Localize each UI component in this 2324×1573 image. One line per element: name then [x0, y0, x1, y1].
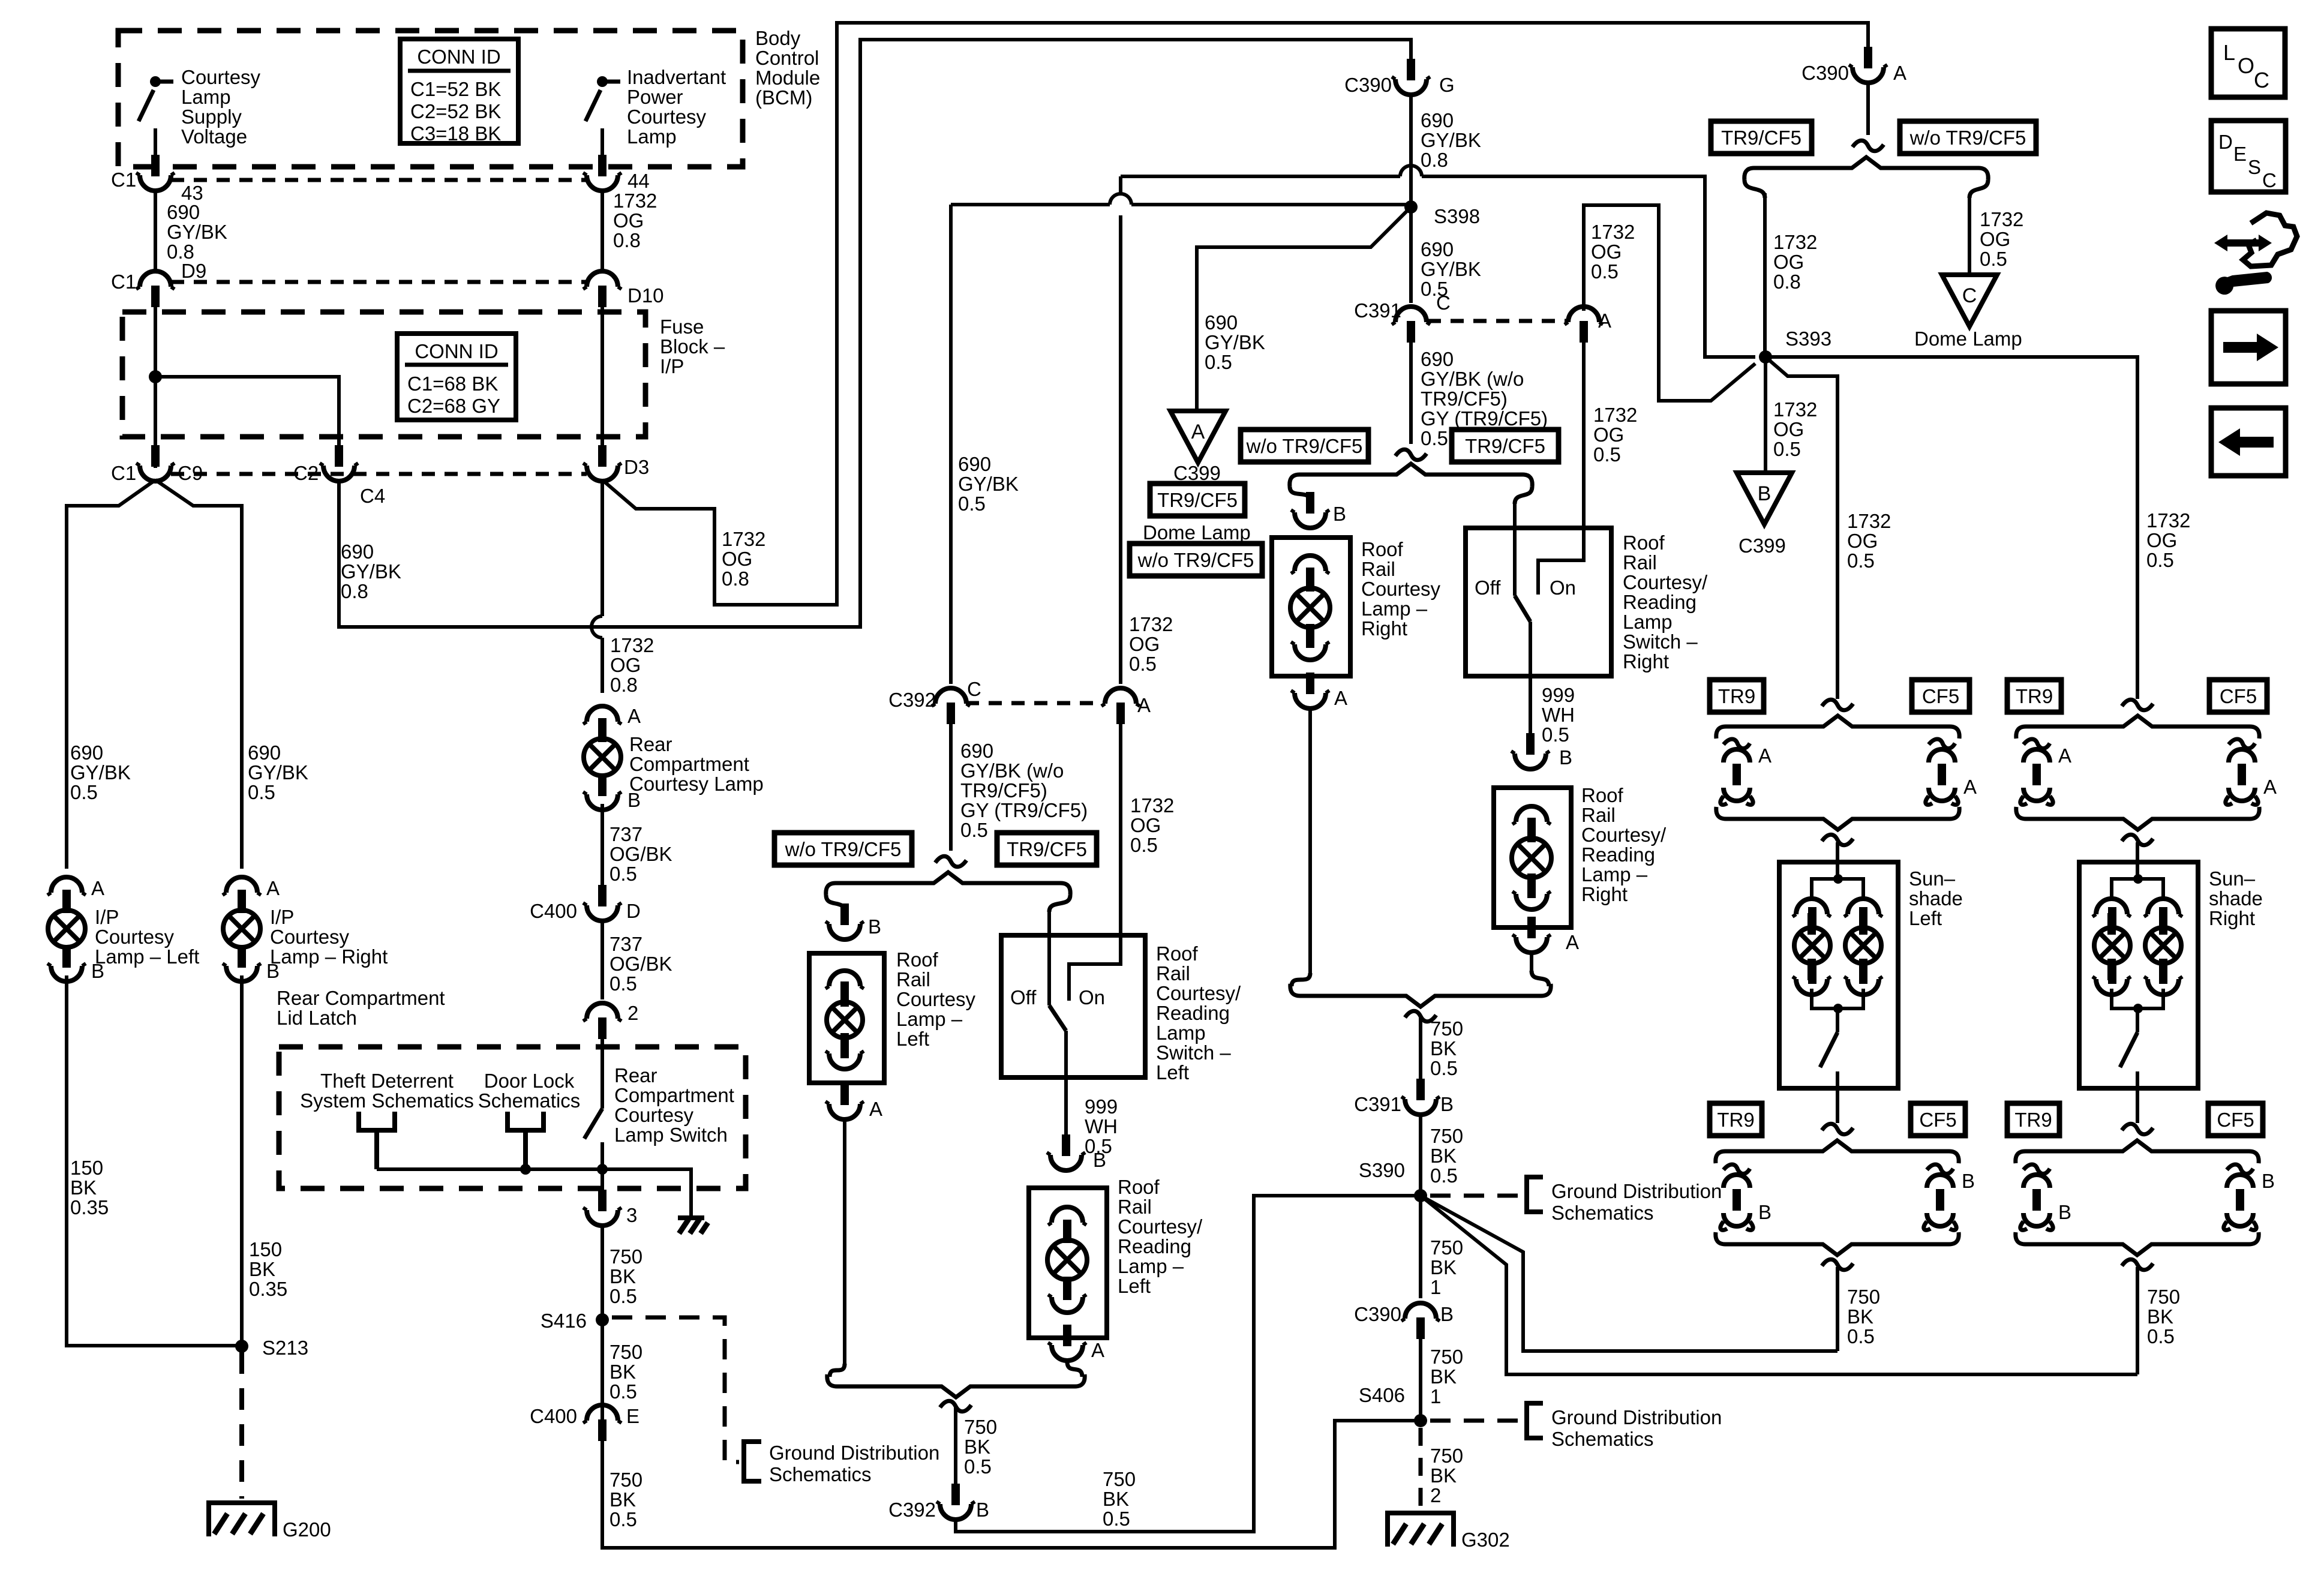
- connector row C391 C-A: [1428, 319, 1567, 323]
- S-link reading right to bracket: [1532, 971, 1549, 986]
- box Roof Rail Courtesy/Reading Lamp Switch - Left: [1001, 935, 1145, 1077]
- S-link left branch C392 bracket: [826, 895, 845, 912]
- svg-text:0.5: 0.5: [1542, 724, 1569, 746]
- svg-text:D10: D10: [627, 284, 664, 307]
- svg-text:Schematics: Schematics: [1551, 1428, 1654, 1450]
- svg-text:0.8: 0.8: [613, 229, 641, 251]
- svg-text:OG: OG: [1130, 814, 1161, 836]
- off-page triangle A dome lamp: [1170, 411, 1226, 463]
- pin left bulb top (Left): [1792, 899, 1831, 935]
- Fuse Block - I/P dashed box: [122, 312, 645, 437]
- option label TR9 (Left lower): [1710, 1103, 1762, 1136]
- wire 1732 OG 0.5 C391 A to S393: [1584, 205, 1755, 401]
- svg-text:BK: BK: [1430, 1365, 1457, 1388]
- svg-text:GY (TR9/CF5): GY (TR9/CF5): [1421, 407, 1548, 430]
- svg-text:0.5: 0.5: [2147, 1325, 2175, 1347]
- svg-text:GY (TR9/CF5): GY (TR9/CF5): [960, 799, 1088, 821]
- svg-text:I/P: I/P: [660, 355, 684, 377]
- junction sunshade Right top: [2133, 874, 2143, 884]
- connector A reading left: [1048, 1325, 1086, 1361]
- option label TR9/CF5 (roof right): [1452, 430, 1559, 462]
- wire 750 BK 1 S390 to C390 B: [1419, 1196, 1422, 1298]
- svg-text:GY/BK (w/o: GY/BK (w/o: [960, 760, 1064, 782]
- svg-text:750: 750: [1103, 1468, 1136, 1490]
- option label TR9/CF5 (roof left): [997, 833, 1097, 865]
- option label CF5 (Right upper): [2209, 680, 2267, 712]
- legend DESC box: [2211, 121, 2286, 192]
- connector C390 A: [1849, 47, 1887, 83]
- svg-text:Sun–: Sun–: [1909, 867, 1956, 890]
- svg-text:Courtesy/: Courtesy/: [1118, 1215, 1203, 1238]
- S-split below gather bracket right: [1405, 1011, 1436, 1022]
- svg-text:C2=68 GY: C2=68 GY: [407, 395, 500, 417]
- svg-text:BK: BK: [1430, 1464, 1457, 1487]
- svg-text:A: A: [2263, 776, 2277, 798]
- option label w/o TR9/CF5 (roof left): [774, 833, 912, 865]
- wire hop 690 line over 1732 vertical: [1110, 194, 1131, 205]
- wire sunshade Left output: [1836, 1071, 1839, 1123]
- svg-text:1732: 1732: [722, 528, 765, 550]
- option bracket lower (Left): [1716, 1140, 1959, 1163]
- svg-text:0.8: 0.8: [341, 580, 368, 602]
- svg-text:TR9/CF5): TR9/CF5): [1421, 388, 1508, 410]
- svg-text:GY/BK (w/o: GY/BK (w/o: [1421, 368, 1524, 390]
- pin left bulb top (Right): [2092, 899, 2131, 935]
- wire 1732 OG 0.5 S393 to sunshade left: [1765, 357, 1837, 699]
- pin bottom roof courtesy right: [1291, 624, 1329, 660]
- pin top roof courtesy right: [1291, 556, 1329, 592]
- wire sunshade Left inner top: [1836, 862, 1839, 879]
- pin top reading left: [1048, 1207, 1086, 1243]
- svg-text:B: B: [627, 789, 641, 811]
- svg-text:OG/BK: OG/BK: [609, 843, 672, 865]
- split below bracket (Left): [1822, 834, 1853, 845]
- CONN ID table (BCM): [400, 39, 518, 143]
- svg-text:0.5: 0.5: [609, 1508, 637, 1530]
- pin top reading right: [1512, 806, 1551, 842]
- legend right arrow box: [2211, 311, 2286, 384]
- box Roof Rail Courtesy Lamp - Left: [809, 953, 884, 1083]
- svg-text:S: S: [2248, 156, 2261, 178]
- legend car outline with arrow and wrench icon: [2214, 235, 2272, 251]
- svg-text:0.8: 0.8: [1421, 149, 1448, 171]
- svg-text:Left: Left: [896, 1028, 929, 1050]
- svg-text:1: 1: [1430, 1276, 1441, 1298]
- box Sun-shade Right: [2079, 862, 2198, 1088]
- svg-text:D3: D3: [624, 456, 649, 478]
- svg-text:Dome Lamp: Dome Lamp: [1914, 328, 2022, 350]
- svg-text:1732: 1732: [1129, 613, 1173, 635]
- svg-text:C391: C391: [1354, 1093, 1401, 1115]
- svg-text:1732: 1732: [1773, 231, 1817, 253]
- wire lever feed switch right: [1513, 504, 1517, 596]
- connector D10 fuse block: [583, 271, 621, 307]
- svg-text:OG: OG: [1129, 633, 1160, 655]
- svg-text:750: 750: [609, 1245, 642, 1268]
- S-link roof courtesy left to bracket: [830, 1364, 845, 1377]
- svg-text:0.5: 0.5: [1130, 834, 1158, 856]
- svg-text:OG: OG: [1593, 424, 1624, 446]
- svg-text:750: 750: [1430, 1125, 1463, 1147]
- wire bulb tee Left: [1812, 879, 1863, 901]
- svg-text:0.5: 0.5: [1847, 550, 1875, 572]
- svg-text:Off: Off: [1010, 986, 1037, 1008]
- svg-text:Roof: Roof: [1623, 532, 1665, 554]
- svg-text:TR9/CF5: TR9/CF5: [1157, 489, 1238, 511]
- wire hop D3 wire over 690 line: [591, 616, 602, 638]
- svg-text:Block –: Block –: [660, 335, 725, 358]
- svg-text:A: A: [1963, 776, 1977, 798]
- svg-text:Courtesy: Courtesy: [181, 66, 261, 88]
- lamp Roof Rail Courtesy Lamp - Left: [827, 981, 863, 1058]
- svg-text:A: A: [91, 877, 104, 899]
- option bracket upper (Right): [2016, 716, 2259, 739]
- svg-text:0.5: 0.5: [958, 493, 986, 515]
- dashed branch S416 to ground distribution: [612, 1317, 739, 1462]
- option label TR9/CF5 (dome): [1150, 484, 1245, 516]
- connector B I/P courtesy lamp right: [223, 945, 261, 981]
- svg-text:GY/BK: GY/BK: [167, 221, 227, 243]
- svg-text:C392: C392: [888, 1499, 936, 1521]
- option label w/o TR9/CF5 (dome top): [1900, 121, 2036, 154]
- svg-text:690: 690: [1421, 348, 1454, 370]
- connector B rear compartment courtesy lamp: [583, 774, 621, 810]
- svg-text:Rail: Rail: [1118, 1196, 1152, 1218]
- svg-text:Theft Deterrent: Theft Deterrent: [320, 1070, 454, 1092]
- connector A I/P courtesy lamp right: [223, 877, 261, 913]
- svg-text:C390: C390: [1801, 62, 1849, 84]
- svg-text:A: A: [1758, 745, 1771, 767]
- wire roof courtesy left down: [843, 1117, 846, 1364]
- wire 1732 OG 0.5 C392 A to left switch: [1119, 724, 1122, 935]
- connector C392 A: [1101, 688, 1140, 724]
- svg-text:Rear: Rear: [629, 733, 672, 755]
- svg-text:BK: BK: [609, 1361, 636, 1383]
- svg-text:Reading: Reading: [1623, 591, 1697, 613]
- svg-text:B: B: [1758, 482, 1771, 505]
- wire 1732 OG 0.8 D3 to C390 A: [602, 23, 1868, 605]
- svg-text:Reading: Reading: [1156, 1002, 1230, 1024]
- wire 737 OG/BK 0.5 lower: [600, 920, 604, 999]
- svg-text:A: A: [1893, 62, 1906, 84]
- svg-text:Sun–: Sun–: [2209, 867, 2256, 890]
- svg-text:3: 3: [626, 1204, 637, 1226]
- svg-text:shade: shade: [2209, 887, 2263, 909]
- svg-text:B: B: [976, 1499, 989, 1521]
- bracket Ground Distribution (S390): [1527, 1177, 1543, 1212]
- svg-text:0.5: 0.5: [960, 819, 988, 841]
- junction inside fuse block: [149, 370, 162, 383]
- svg-text:Right: Right: [1623, 650, 1669, 673]
- svg-text:Schematics: Schematics: [478, 1089, 581, 1112]
- svg-text:737: 737: [609, 823, 642, 845]
- svg-text:C400: C400: [530, 1405, 577, 1427]
- svg-text:C392: C392: [888, 689, 936, 711]
- connector C391 C: [1392, 307, 1430, 343]
- pin left bulb bottom (Left): [1792, 959, 1831, 995]
- svg-text:Voltage: Voltage: [181, 125, 247, 148]
- svg-text:CF5: CF5: [2220, 685, 2257, 707]
- wire 737 OG/BK 0.5 upper: [600, 804, 604, 897]
- Body Control Module (BCM) dashed box: [118, 31, 743, 167]
- S-link right branch C392 bracket: [1049, 895, 1070, 912]
- svg-text:C1: C1: [111, 462, 136, 484]
- wire 690 GY/BK C392 C down: [949, 724, 953, 851]
- svg-text:0.5: 0.5: [609, 1380, 637, 1403]
- option bracket lower (Right): [2016, 1140, 2259, 1163]
- svg-text:750: 750: [1430, 1236, 1463, 1259]
- svg-text:750: 750: [609, 1341, 642, 1363]
- svg-text:GY/BK: GY/BK: [248, 761, 308, 784]
- svg-text:Roof: Roof: [1581, 784, 1624, 806]
- svg-text:(BCM): (BCM): [755, 86, 812, 109]
- svg-text:Body: Body: [755, 27, 801, 49]
- lamp Roof Rail Courtesy/Reading Lamp - Left: [1047, 1220, 1087, 1300]
- svg-text:Left: Left: [1909, 907, 1942, 929]
- wire 1732 OG horizontal to S393 side: [1121, 176, 1755, 357]
- lamp Roof Rail Courtesy Lamp - Right: [1290, 568, 1330, 648]
- switch lever Rear Compartment Courtesy Lamp Switch: [584, 1109, 602, 1139]
- svg-text:On: On: [1079, 986, 1105, 1008]
- svg-text:0.8: 0.8: [1773, 271, 1801, 293]
- connector row C9 C4 D3: [171, 472, 587, 476]
- option label CF5 (Right lower): [2208, 1103, 2263, 1136]
- svg-text:BK: BK: [70, 1176, 97, 1199]
- svg-text:OG: OG: [610, 654, 641, 676]
- svg-text:CF5: CF5: [1919, 1109, 1956, 1131]
- option split under C390 A: [1852, 140, 1884, 151]
- svg-text:Lamp –: Lamp –: [896, 1008, 963, 1030]
- wire bulb join Left: [1812, 989, 1863, 1008]
- option label TR9/CF5 (dome top): [1711, 121, 1812, 154]
- wire 690 GY/BK C391 C down: [1409, 327, 1413, 444]
- switch lever (right switch): [1515, 596, 1530, 622]
- svg-text:Ground Distribution: Ground Distribution: [1551, 1406, 1722, 1428]
- option bracket upper (Left): [1716, 716, 1959, 739]
- wire 690 GY/BK 0.5 to I/P lamp right: [155, 480, 242, 869]
- svg-text:TR9: TR9: [2016, 685, 2053, 707]
- wire 1732 OG C390 A down: [1866, 82, 1870, 135]
- wire 999 WH 0.5 left switch output: [1064, 1031, 1068, 1145]
- svg-text:C391: C391: [1354, 299, 1401, 322]
- junction sunshade Left top: [1833, 874, 1843, 884]
- svg-text:TR9: TR9: [1718, 685, 1755, 707]
- connector C400 E: [583, 1405, 621, 1441]
- svg-text:Right: Right: [2209, 907, 2255, 929]
- svg-text:OG: OG: [1773, 251, 1804, 273]
- svg-text:690: 690: [248, 742, 281, 764]
- connector C390 G: [1392, 59, 1430, 95]
- wire 1732 OG 0.5 C391 A to switch right: [1582, 343, 1586, 528]
- svg-text:S406: S406: [1359, 1384, 1405, 1406]
- S-link roof courtesy right to bracket: [1292, 973, 1310, 986]
- inline connector pair CF5 B (Right): [2224, 1164, 2256, 1230]
- connector C391 A: [1565, 307, 1603, 343]
- svg-text:750: 750: [609, 1469, 642, 1491]
- svg-text:BK: BK: [964, 1436, 990, 1458]
- split to ground wire (Right): [2122, 1259, 2153, 1270]
- wire into sunshade Left: [1836, 842, 1839, 862]
- svg-text:GY/BK: GY/BK: [341, 560, 401, 583]
- connector A I/P courtesy lamp left: [47, 877, 86, 913]
- svg-text:750: 750: [1430, 1445, 1463, 1467]
- svg-text:Schematics: Schematics: [1551, 1202, 1654, 1224]
- svg-text:C: C: [1962, 284, 1977, 307]
- svg-text:OG/BK: OG/BK: [609, 953, 672, 975]
- svg-text:I/P: I/P: [95, 906, 119, 928]
- svg-text:w/o TR9/CF5: w/o TR9/CF5: [1137, 549, 1254, 571]
- svg-text:Roof: Roof: [1118, 1176, 1160, 1198]
- svg-text:G302: G302: [1461, 1529, 1510, 1551]
- svg-text:B: B: [2058, 1201, 2071, 1223]
- option label CF5 (Left lower): [1911, 1103, 1965, 1136]
- wire into lamp switch: [600, 1039, 604, 1109]
- svg-text:D: D: [626, 900, 641, 922]
- connector 3: [583, 1190, 621, 1226]
- splice S393: [1759, 350, 1772, 364]
- wire 690 GY/BK 0.8 C390G to S398: [1409, 94, 1413, 207]
- wire to switch (Left): [1836, 1008, 1839, 1032]
- splice S406: [1414, 1414, 1427, 1427]
- svg-text:B: B: [266, 960, 280, 982]
- svg-text:B: B: [1093, 1149, 1106, 1171]
- svg-text:TR9: TR9: [2014, 1109, 2052, 1131]
- on contact stub (left switch): [1069, 935, 1121, 1001]
- switch lever sunshade Right: [2120, 1032, 2137, 1067]
- option split under C392 C: [935, 856, 966, 867]
- junction door lock: [520, 1164, 531, 1175]
- svg-text:OG: OG: [1773, 418, 1804, 440]
- S-link left branch C391 bracket: [1290, 487, 1310, 502]
- svg-text:BK: BK: [1430, 1037, 1457, 1059]
- svg-text:0.35: 0.35: [70, 1196, 109, 1218]
- wire branch to C2 C4: [155, 377, 339, 456]
- svg-text:0.5: 0.5: [964, 1455, 992, 1478]
- svg-text:0.5: 0.5: [1847, 1325, 1875, 1347]
- splice S213: [235, 1340, 248, 1353]
- dashed wire S213 to G200: [239, 1352, 244, 1499]
- svg-text:BK: BK: [609, 1488, 636, 1511]
- connector C392 C: [932, 688, 970, 724]
- svg-text:GY/BK: GY/BK: [958, 473, 1019, 495]
- svg-text:Lamp –: Lamp –: [1118, 1255, 1184, 1277]
- svg-text:A: A: [1566, 931, 1579, 953]
- svg-text:0.8: 0.8: [610, 674, 638, 696]
- option split under C391 C: [1395, 449, 1427, 460]
- svg-text:B: B: [91, 960, 104, 982]
- connector B roof rail courtesy lamp left: [825, 903, 864, 939]
- inline connector pair CF5 A (Left): [1926, 739, 1958, 804]
- svg-text:0.5: 0.5: [1421, 427, 1448, 449]
- gather bracket upper (Right): [2016, 807, 2259, 830]
- wire 690 GY/BK 0.8 BCM to fuse block: [154, 188, 157, 271]
- inline connector pair CF5 A (Right): [2226, 739, 2258, 804]
- lamp sunshade Right right bulb: [2145, 907, 2181, 984]
- lamp sunshade Left left bulb: [1794, 907, 1830, 984]
- svg-text:Courtesy: Courtesy: [614, 1104, 694, 1126]
- off-page triangle B: [1737, 473, 1792, 524]
- svg-text:WH: WH: [1542, 704, 1575, 726]
- wire lever feed switch left: [1047, 912, 1051, 1005]
- wire 750 BK ground run to S406: [602, 1224, 1421, 1548]
- svg-text:Switch –: Switch –: [1156, 1041, 1231, 1064]
- connector B roof reading lamp left: [1047, 1134, 1085, 1170]
- S-link right branch C391 bracket: [1515, 487, 1532, 504]
- svg-text:750: 750: [2147, 1286, 2180, 1308]
- svg-text:Off: Off: [1475, 577, 1501, 599]
- gather bracket lower (Right): [2016, 1232, 2259, 1255]
- svg-text:Roof: Roof: [1156, 942, 1199, 965]
- svg-text:shade: shade: [1909, 887, 1963, 909]
- svg-text:Lamp –: Lamp –: [1581, 863, 1648, 885]
- svg-text:Lamp: Lamp: [627, 125, 677, 148]
- option label CF5 (Left upper): [1912, 680, 1969, 712]
- svg-text:E: E: [2233, 143, 2247, 165]
- svg-text:Courtesy: Courtesy: [270, 926, 350, 948]
- connector row C392 C-A: [966, 701, 1104, 706]
- wire 750 BK 0.5 S390 to sunshade right: [1421, 1196, 2137, 1374]
- wire reading right to bracket: [1530, 950, 1533, 971]
- svg-text:Inadvertant: Inadvertant: [627, 66, 726, 88]
- svg-text:B: B: [1559, 746, 1572, 769]
- inline connector pair TR9 B (Left): [1721, 1164, 1753, 1230]
- splice S390: [1414, 1189, 1427, 1202]
- bracket Theft Deterrent: [359, 1112, 395, 1169]
- svg-text:Courtesy/: Courtesy/: [1623, 571, 1708, 593]
- svg-text:1732: 1732: [1591, 221, 1635, 243]
- svg-text:690: 690: [70, 742, 103, 764]
- svg-text:2: 2: [1430, 1484, 1441, 1506]
- wire 690 GY/BK 0.5 S398 to C391 C: [1409, 207, 1413, 303]
- svg-text:D: D: [2218, 131, 2233, 153]
- connector B roof reading lamp right: [1511, 733, 1550, 769]
- svg-text:A: A: [1598, 310, 1611, 332]
- inline connector pair CF5 B (Left): [1924, 1164, 1956, 1230]
- svg-text:Lamp –: Lamp –: [1361, 598, 1428, 620]
- svg-text:E: E: [626, 1405, 639, 1427]
- svg-text:Reading: Reading: [1581, 843, 1655, 866]
- svg-text:Module: Module: [755, 67, 820, 89]
- svg-text:C: C: [1436, 292, 1451, 314]
- svg-text:Roof: Roof: [1361, 538, 1404, 560]
- svg-text:A: A: [627, 705, 641, 727]
- svg-text:S213: S213: [262, 1337, 308, 1359]
- wire 1732 OG 0.5 S393 to triangle B: [1764, 357, 1767, 472]
- pin top roof courtesy left: [825, 971, 864, 1007]
- svg-text:1732: 1732: [1773, 398, 1817, 421]
- svg-text:1732: 1732: [1593, 404, 1637, 426]
- svg-text:1732: 1732: [1847, 510, 1891, 532]
- junction sunshade Right bottom: [2133, 1004, 2143, 1013]
- svg-text:737: 737: [609, 933, 642, 955]
- wire 750 BK 0.5 C391B to S390: [1419, 1112, 1422, 1196]
- svg-text:GY/BK: GY/BK: [1205, 331, 1265, 353]
- svg-text:999: 999: [1085, 1095, 1118, 1118]
- gather bracket left roof lamps: [827, 1374, 1085, 1397]
- svg-text:0.5: 0.5: [1591, 260, 1619, 283]
- svg-text:0.8: 0.8: [722, 568, 749, 590]
- svg-text:C399: C399: [1173, 462, 1221, 484]
- box Roof Rail Courtesy/Reading Lamp Switch - Right: [1466, 528, 1611, 676]
- svg-text:OG: OG: [1591, 241, 1622, 263]
- wire sunshade left ground down: [1836, 1267, 1839, 1351]
- svg-text:0.5: 0.5: [1205, 351, 1232, 373]
- pin bottom reading left: [1048, 1277, 1086, 1313]
- svg-text:750: 750: [964, 1416, 997, 1438]
- svg-text:0.5: 0.5: [609, 972, 637, 995]
- wire to switch (Right): [2136, 1008, 2139, 1032]
- bracket Ground Distribution (S406): [1527, 1403, 1543, 1438]
